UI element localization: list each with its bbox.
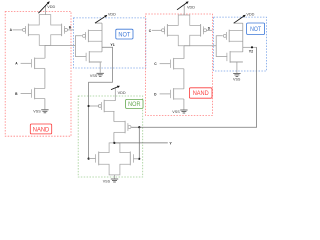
power VDD NOT1 xyxy=(95,13,116,23)
svg-text:NOR: NOR xyxy=(128,101,141,108)
label NOT1 xyxy=(116,29,133,39)
wire pmos1 drain to pmos2 source xyxy=(113,111,115,121)
input B label (pmos row) xyxy=(69,26,72,30)
svg-text:VSS: VSS xyxy=(90,74,98,78)
wire nmosD source to VSS xyxy=(183,99,185,110)
wire nmos NOT1 source to VSS xyxy=(89,62,100,73)
wire pmos1 source up xyxy=(114,100,117,102)
ground VSS NAND2 xyxy=(172,110,187,114)
wire Y2 branch down xyxy=(138,127,140,159)
svg-text:NAND: NAND xyxy=(193,90,209,97)
node Y1 label xyxy=(110,43,114,47)
dashed group box NOT1 xyxy=(74,18,146,68)
wire nmos NOT2 source to VSS xyxy=(230,62,243,73)
svg-text:VSS: VSS xyxy=(172,110,180,114)
svg-text:D: D xyxy=(208,26,211,30)
svg-text:VDD: VDD xyxy=(47,5,55,9)
pmos1 NOR xyxy=(98,100,114,113)
nmos D NAND2 xyxy=(170,88,184,100)
svg-text:VDD: VDD xyxy=(246,13,254,17)
dashed group box NAND1 xyxy=(5,12,71,137)
input C label (pmos row) xyxy=(149,29,152,33)
svg-text:Y1: Y1 xyxy=(110,43,114,47)
svg-text:C: C xyxy=(149,29,152,33)
power VDD NOR xyxy=(111,86,126,101)
label NOT2 xyxy=(247,23,265,35)
wire D to nmos gate xyxy=(160,93,171,95)
wire pmos gate to B xyxy=(68,29,74,31)
junction dot Y2-pmos2 xyxy=(138,126,140,128)
svg-text:C: C xyxy=(154,62,157,66)
wire Y1 to NOR input xyxy=(89,47,113,158)
pmos NOT2 xyxy=(223,30,243,43)
wire A to nmos gate xyxy=(21,62,32,64)
dashed group box NAND2 xyxy=(146,14,213,115)
svg-text:NOT: NOT xyxy=(250,26,261,33)
nmos pair pull-down NOR (cross) xyxy=(96,143,134,175)
ground VSS NOT2 xyxy=(233,73,241,81)
input C label (nmos row) xyxy=(154,62,157,66)
dashed group box NOT2 xyxy=(214,17,267,71)
node Y label xyxy=(169,141,172,145)
ground VSS NOT1 xyxy=(90,73,104,78)
wire Y2 dot to nmos right gate xyxy=(134,158,140,160)
label NOR xyxy=(126,99,143,108)
svg-text:VDD: VDD xyxy=(187,6,195,10)
wire pmos gate to D xyxy=(207,29,213,31)
svg-text:NOT: NOT xyxy=(118,31,130,38)
svg-text:A: A xyxy=(15,62,18,66)
wire A to pmos gate xyxy=(13,29,23,31)
wire NAND2 output down xyxy=(183,46,185,59)
dashed group box NOR xyxy=(78,96,143,177)
wire nmosA source to nmosB drain xyxy=(44,68,46,88)
power VDD NAND2 xyxy=(177,2,195,15)
svg-text:VSS: VSS xyxy=(103,180,111,184)
nmos C NAND2 xyxy=(170,58,184,70)
junction dot NOR output xyxy=(113,142,115,144)
wire NOR cross to VSS xyxy=(114,175,116,179)
pmos NOT1 xyxy=(83,30,103,43)
input D label (nmos row) xyxy=(154,92,157,96)
rail NOT2 output xyxy=(242,23,244,52)
svg-text:B: B xyxy=(15,92,18,96)
svg-text:Y2: Y2 xyxy=(249,49,253,53)
wire Y2 out xyxy=(243,46,257,48)
wire Y2 down right side xyxy=(131,47,256,127)
nmos B NAND1 xyxy=(31,88,45,100)
input D label (pmos row) xyxy=(208,26,211,30)
nmos A NAND1 xyxy=(31,58,45,70)
wire NAND1 output to NOT1 input xyxy=(45,44,75,46)
nmos NOT2 xyxy=(227,51,243,63)
svg-text:NAND: NAND xyxy=(33,126,50,133)
junction dot Y1-pmos1 xyxy=(88,105,90,107)
label NAND2 xyxy=(189,88,212,98)
wire nmosC source to nmosD drain xyxy=(183,69,185,89)
wire NOT1 input tree xyxy=(75,36,86,57)
wire Y1 dot to nmos left gate xyxy=(88,158,96,160)
pmos pair pull-up NAND2 (cross) xyxy=(162,15,207,46)
svg-text:VDD: VDD xyxy=(118,91,126,95)
svg-text:VDD: VDD xyxy=(108,13,116,17)
label NAND1 xyxy=(30,124,51,134)
ground VSS NOR xyxy=(103,179,118,184)
rail NOT1 output xyxy=(101,23,103,52)
svg-text:VSS: VSS xyxy=(233,78,241,82)
input A label (pmos row) xyxy=(10,28,13,32)
node Y2 label xyxy=(249,49,253,53)
wire B to nmos gate xyxy=(21,93,32,95)
pmos2 NOR xyxy=(114,121,131,134)
input A label (nmos row) xyxy=(15,62,18,66)
wire Y1 dot to pmos1 gate xyxy=(89,105,100,107)
junction dot Y2-nmos right xyxy=(138,158,140,160)
junction dot Y2 xyxy=(251,46,253,48)
power VDD NOT2 xyxy=(234,13,255,24)
wire pmos2 drain down xyxy=(113,132,115,143)
input B label (nmos row) xyxy=(15,92,18,96)
svg-text:D: D xyxy=(154,92,157,96)
wire C to pmos gate xyxy=(152,29,162,31)
wire NOT2 input tree xyxy=(216,36,227,57)
svg-text:Y: Y xyxy=(169,141,172,145)
wire C to nmos gate xyxy=(160,63,171,65)
nmos NOT1 xyxy=(86,51,102,63)
power VDD NAND1 xyxy=(38,2,55,15)
wire output Y xyxy=(114,142,167,144)
wire NAND2 output to NOT2 input xyxy=(184,45,216,47)
svg-text:A: A xyxy=(10,28,13,32)
wire NAND1 output down xyxy=(44,45,46,58)
svg-text:VSS: VSS xyxy=(33,110,41,114)
pmos pair pull-up NAND1 (cross) xyxy=(23,15,68,46)
ground VSS NAND1 xyxy=(33,110,48,114)
wire nmosB source to VSS xyxy=(44,99,46,110)
